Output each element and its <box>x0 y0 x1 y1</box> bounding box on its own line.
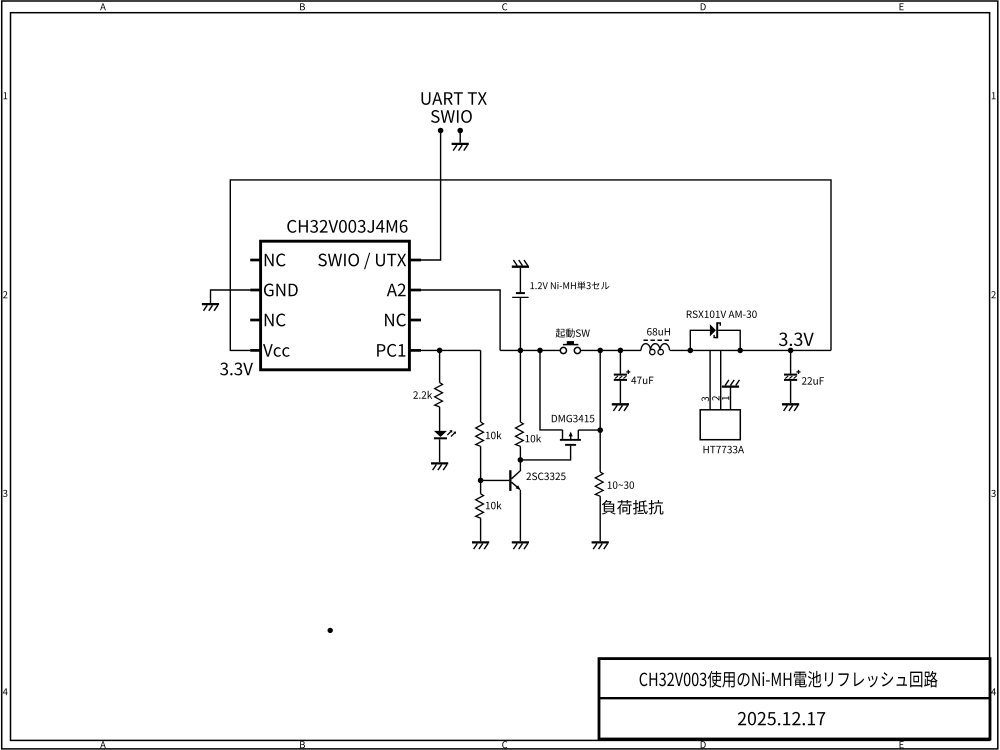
wire battery rail to switch <box>500 349 560 351</box>
pin number 2 <box>712 396 719 401</box>
node battery junction <box>518 348 524 354</box>
wire U2 pin3 <box>709 350 711 409</box>
label UART TX <box>422 92 487 105</box>
label 1.2V Ni-MH cell <box>530 281 609 290</box>
wire diode cathode branch <box>718 330 740 350</box>
node stray junction dot <box>328 628 333 633</box>
LED D1 <box>434 430 456 439</box>
node C2 junction <box>788 348 794 354</box>
op-amp U2 HT7733A body <box>700 410 740 440</box>
node PC1 junction <box>437 348 443 354</box>
diode D2 RSX101VAM-30 schottky <box>710 322 720 338</box>
node SWIO junction <box>438 128 444 134</box>
wire SWIO/UTX <box>421 131 441 261</box>
label Q2 DMG3415 <box>552 415 595 423</box>
wire GND pin <box>211 290 251 303</box>
label SW1 kidou SW <box>556 328 590 337</box>
label R1 2.2k <box>413 391 432 399</box>
inductor L1 68uH <box>641 340 671 354</box>
pin label NC <box>265 254 286 267</box>
wire U2 pin2 <box>720 350 722 409</box>
wire rail to R3 <box>519 350 521 422</box>
ground SWIO <box>452 144 469 151</box>
wire PC1 to R1 <box>439 350 441 382</box>
label R5 10~30 <box>608 481 634 489</box>
ground C1 <box>612 404 629 411</box>
wire battery to rail <box>519 298 521 350</box>
label Q1 2SC3325 <box>526 473 565 481</box>
battery BT1 1.2V Ni-MH <box>512 292 528 297</box>
pin label SWIO / UTX <box>318 253 406 270</box>
label C2 22uF <box>802 377 824 385</box>
title block <box>599 659 990 739</box>
wire PC1 <box>421 349 481 351</box>
ground U2 pin1 flipped <box>722 380 740 387</box>
pin label NC <box>265 314 286 327</box>
wire rail to C2 <box>790 350 792 373</box>
date 2025.12.17 <box>738 712 825 726</box>
pin number 1 <box>722 396 729 400</box>
node MOSFET source junction <box>537 348 543 354</box>
pin label GND <box>264 284 298 297</box>
transistor Q1 2SC3325 NPN <box>509 460 520 491</box>
capacitor C1 47uF <box>614 370 631 381</box>
pin GND stub left <box>250 289 260 292</box>
node diode right junction <box>737 348 743 354</box>
label R4 10k <box>486 501 502 509</box>
ground emitter <box>512 542 529 549</box>
ground R4 <box>472 542 489 549</box>
node SWIO ground junction <box>457 128 463 134</box>
label 3.3V left <box>220 363 253 376</box>
label C1 47uF <box>631 377 653 384</box>
wire rail to MOSFET source <box>540 350 563 430</box>
pin PC1 stub right <box>409 349 421 352</box>
wire diode anode branch <box>690 330 710 350</box>
wire drain to node <box>578 429 600 431</box>
resistor R2 10k <box>476 422 484 446</box>
capacitor C2 22uF <box>784 370 801 381</box>
wire LED to ground <box>439 439 441 462</box>
pin label Vcc <box>263 344 290 357</box>
wire C2 to ground <box>790 381 792 403</box>
wire PC1 to R2 <box>480 350 482 422</box>
label U2 HT7733A <box>704 446 744 454</box>
pin Vcc stub left <box>250 349 260 352</box>
node diode left junction <box>688 348 694 354</box>
transistor Q2 DMG3415 P-MOSFET <box>560 430 581 446</box>
pin label A2 <box>387 284 406 297</box>
wire R1 to LED <box>439 407 441 431</box>
ground LED <box>431 463 448 470</box>
wire emitter to ground <box>519 490 521 541</box>
label R2 10k <box>486 431 502 439</box>
wire U2 pin1 <box>730 387 732 410</box>
resistor R1 2.2k <box>435 383 443 407</box>
label 3.3V right <box>779 332 814 346</box>
pin A2 stub right <box>409 289 421 292</box>
wire C1 to ground <box>619 381 621 403</box>
pin label PC1 <box>377 344 405 357</box>
pin NC stub left <box>250 259 260 262</box>
wire gate to collector node <box>520 446 570 460</box>
node base junction <box>478 478 484 484</box>
label L1 68uH <box>647 328 670 336</box>
wire switch to inductor <box>580 349 641 351</box>
label R3 10k <box>525 434 541 442</box>
resistor R5 load 10~30 <box>595 472 603 496</box>
wire rail to drain and load <box>599 350 601 472</box>
pin SWIO / UTX stub right <box>409 259 421 262</box>
wire R4 to ground <box>480 518 482 541</box>
wire R3 to collector node <box>519 446 521 460</box>
label U1 CH32V003J4M6 <box>287 220 407 233</box>
resistor R3 10k <box>516 422 524 446</box>
resistor R4 10k <box>476 494 484 518</box>
node load junction <box>597 348 603 354</box>
label SWIO <box>431 110 472 123</box>
wire rail to C1 <box>619 350 621 373</box>
wire inductor to corner <box>670 349 831 351</box>
ground battery top flipped <box>512 260 529 267</box>
ground GND pin <box>202 304 219 311</box>
pin number 3 <box>701 397 708 402</box>
pin label NC <box>385 314 406 327</box>
label D2 RSX101VAM-30 <box>687 310 757 318</box>
title text CH32V003 Ni-MH battery refresh circuit <box>640 671 938 688</box>
pin NC stub right <box>409 319 421 322</box>
label load resistor fuka teikou <box>602 500 664 515</box>
wire Vcc 3.3V loop <box>230 180 831 351</box>
switch SW1 pushbutton <box>560 341 580 354</box>
node collector junction <box>518 457 524 463</box>
ground load <box>592 542 609 549</box>
node drain junction <box>597 427 603 433</box>
wire A2 to battery <box>421 290 500 350</box>
op-amp U1 CH32V003J4M6 body <box>261 241 410 370</box>
wire base <box>481 479 510 481</box>
node C1 junction <box>618 348 624 354</box>
ground C2 <box>782 404 799 411</box>
pin NC stub left <box>250 319 260 322</box>
wire R2 to base node <box>480 446 482 494</box>
wire ground to battery <box>519 268 521 292</box>
wire load to ground <box>599 496 601 541</box>
wire SWIO ground stub <box>459 131 461 143</box>
